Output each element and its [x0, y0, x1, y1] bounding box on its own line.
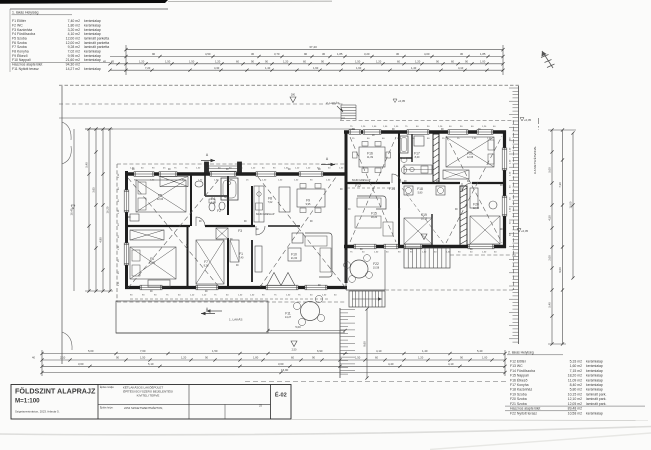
interior wall F1/F10: [251, 240, 253, 282]
svg-text:F11 Nyitott terasz: F11 Nyitott terasz: [12, 67, 39, 71]
svg-text:37,40: 37,40: [309, 45, 317, 49]
round table F22: [344, 255, 373, 283]
svg-text:1,00: 1,00: [482, 356, 488, 360]
terrace dim 5,00: [266, 325, 346, 332]
svg-text:kerámialap: kerámialap: [586, 364, 603, 368]
svg-text:2,50: 2,50: [292, 349, 297, 352]
stairs F22 down: [349, 291, 385, 307]
bed F20: [470, 216, 500, 244]
site dashed line: [59, 103, 345, 105]
svg-text:30: 30: [251, 52, 255, 56]
svg-text:5,80: 5,80: [418, 192, 423, 195]
svg-text:kerámialap: kerámialap: [84, 67, 101, 71]
interior wall F16/bath: [398, 133, 400, 183]
svg-text:F12 Előtér: F12 Előtér: [510, 359, 527, 363]
room label F16: [367, 152, 374, 160]
stair arrow F22: [352, 297, 382, 300]
svg-text:Hasznos alapterület: Hasznos alapterület: [510, 407, 540, 411]
exterior wall unit2 bottom: [344, 245, 506, 248]
bed F5: [136, 180, 186, 212]
svg-text:60x60 GRESLAP: 60x60 GRESLAP: [256, 213, 275, 216]
svg-text:12,00: 12,00: [149, 262, 156, 265]
bathtub F4: [221, 178, 238, 200]
svg-text:16,00: 16,00: [569, 201, 573, 208]
svg-text:30: 30: [396, 52, 400, 56]
svg-text:FÖLDSZINT ALAPRAJZ: FÖLDSZINT ALAPRAJZ: [15, 387, 96, 396]
title middle fields: [100, 385, 262, 410]
svg-text:9,00: 9,00: [558, 267, 562, 273]
bed F7: [196, 240, 224, 284]
chair F20: [489, 201, 497, 209]
svg-text:F15 Nappali: F15 Nappali: [510, 374, 529, 378]
svg-text:90: 90: [205, 356, 208, 360]
window F20 bottom: [468, 244, 494, 249]
bed F21: [446, 137, 494, 167]
svg-text:5,33 m2: 5,33 m2: [570, 359, 583, 363]
svg-text:A-A METSZÉSVONAL: A-A METSZÉSVONAL: [532, 146, 537, 174]
roof overhang dashed unit2: [340, 121, 514, 291]
svg-text:4,10: 4,10: [458, 66, 464, 70]
svg-text:F9 Étkező: F9 Étkező: [12, 53, 28, 58]
svg-text:F16: F16: [367, 152, 373, 156]
svg-text:90: 90: [436, 60, 439, 64]
svg-text:10,58: 10,58: [373, 267, 380, 270]
svg-text:F3: F3: [238, 229, 242, 233]
kitchen counter F17: [404, 165, 432, 174]
svg-text:F1: F1: [239, 252, 243, 256]
room label F18: [417, 187, 423, 195]
svg-text:F16 Étkező: F16 Étkező: [510, 377, 527, 382]
svg-text:F11: F11: [285, 312, 291, 316]
sink F4: [195, 181, 203, 187]
level mark +0,05 right: [520, 118, 532, 123]
window F15 bottom: [354, 244, 376, 249]
svg-text:1,60 m2: 1,60 m2: [570, 364, 583, 368]
bed F6: [130, 247, 176, 279]
dimension chain left: [70, 127, 113, 292]
interior wall kitchen left: [411, 133, 413, 162]
level mark triangle left: [290, 94, 296, 103]
roof diagonal dashes over F5 F6: [128, 178, 220, 288]
title block bottom faint line: [291, 420, 648, 421]
svg-text:laminált park.: laminált park.: [586, 402, 606, 406]
svg-text:M=1:100: M=1:100: [15, 398, 40, 405]
svg-text:F13 WC: F13 WC: [510, 364, 523, 368]
window F20 right: [502, 196, 507, 216]
svg-text:12,10: 12,10: [473, 207, 480, 210]
svg-text:2254 SZIGETSZENTMÁRTON,: 2254 SZIGETSZENTMÁRTON,: [124, 406, 163, 410]
svg-text:60: 60: [291, 356, 294, 360]
desk F6: [148, 280, 170, 287]
roof diagonal dash over F19: [402, 188, 444, 244]
dashed line below unit1: [130, 298, 330, 300]
svg-text:Építés módja:: Építés módja:: [100, 386, 114, 389]
level mark right2: [517, 229, 529, 234]
svg-text:1,20: 1,20: [418, 356, 424, 360]
room label F2: [217, 209, 221, 213]
property boundary dash line top: [59, 84, 520, 86]
room label F22: [373, 262, 380, 270]
window F7 bottom: [196, 285, 218, 290]
svg-text:1,20: 1,20: [415, 60, 421, 64]
svg-text:7,20: 7,20: [145, 66, 151, 70]
svg-text:1,85: 1,85: [337, 52, 343, 56]
room label F7: [204, 260, 209, 268]
round table F11: [293, 295, 324, 325]
svg-text:1,40: 1,40: [411, 66, 417, 70]
unit1 label: [206, 309, 242, 321]
svg-text:2. lakás Helyiség: 2. lakás Helyiség: [508, 351, 534, 355]
svg-text:4,90: 4,90: [99, 237, 103, 243]
window F21 top2: [477, 130, 493, 135]
window F5 top 2: [159, 172, 177, 177]
svg-text:60: 60: [303, 60, 306, 64]
armchair F10: [292, 233, 303, 243]
svg-text:9,95: 9,95: [306, 203, 311, 206]
svg-text:1,20: 1,20: [215, 60, 221, 64]
wall dim specks right: [510, 137, 512, 236]
svg-text:4,50: 4,50: [548, 215, 552, 221]
interior wall F5/F4: [190, 175, 192, 226]
svg-text:30: 30: [322, 52, 326, 56]
svg-text:90: 90: [265, 60, 268, 64]
svg-text:3,60: 3,60: [278, 362, 284, 366]
svg-text:kerámialap: kerámialap: [586, 383, 603, 387]
unit2 label: [326, 101, 343, 112]
svg-text:5,00: 5,00: [548, 167, 552, 173]
svg-text:kerámialap: kerámialap: [586, 378, 603, 382]
svg-text:1,80: 1,80: [253, 356, 259, 360]
svg-text:12,00: 12,00: [157, 198, 164, 201]
svg-text:30: 30: [460, 52, 464, 56]
svg-text:1,50: 1,50: [212, 349, 218, 353]
svg-text:5,00: 5,00: [88, 349, 94, 353]
svg-text:45: 45: [111, 60, 114, 64]
svg-text:F12: F12: [355, 184, 361, 188]
section line A-A label: [532, 118, 539, 174]
wc F4: [209, 199, 215, 211]
nightstand F5: [130, 214, 139, 221]
svg-text:F21 Szoba: F21 Szoba: [510, 402, 527, 406]
hatched masonry wall F17/F21: [433, 134, 439, 183]
wc F2: [219, 202, 225, 210]
svg-text:60: 60: [397, 60, 400, 64]
room label F17: [414, 152, 420, 160]
svg-text:F14 Fürdőszoba: F14 Fürdőszoba: [510, 369, 535, 373]
svg-text:5,00: 5,00: [295, 325, 301, 329]
svg-text:+0,05: +0,05: [521, 229, 529, 233]
boiler F18: [404, 186, 413, 195]
svg-text:1,20: 1,20: [376, 60, 382, 64]
interior wall F2 WC: [205, 175, 228, 196]
svg-text:F6: F6: [150, 257, 154, 261]
svg-text:7,40: 7,40: [239, 257, 244, 260]
svg-text:1,40: 1,40: [422, 349, 428, 353]
svg-text:8,40: 8,40: [415, 156, 420, 159]
svg-text:5,80 m2: 5,80 m2: [570, 388, 583, 392]
svg-text:3,70: 3,70: [274, 52, 280, 56]
wardrobe F5: [160, 177, 188, 187]
roof diagonal dashes over F15 F16: [350, 137, 396, 242]
fridge F17: [414, 136, 424, 146]
svg-text:F9: F9: [306, 199, 310, 203]
bath fixtures unit2: [400, 136, 408, 173]
svg-text:60: 60: [451, 60, 454, 64]
svg-text:Építés helye:: Építés helye:: [100, 406, 114, 409]
window F10 bottom: [305, 285, 327, 290]
north arrow: [541, 51, 555, 68]
svg-text:F15: F15: [371, 212, 377, 216]
svg-text:2,00: 2,00: [548, 255, 552, 261]
bed F19: [404, 218, 432, 244]
svg-text:É-02: É-02: [275, 391, 287, 399]
svg-text:90: 90: [304, 52, 308, 56]
section mark A bottom: [201, 307, 215, 315]
room label F14: [389, 187, 395, 191]
svg-text:kerámialap: kerámialap: [586, 388, 603, 392]
svg-text:F22: F22: [373, 262, 379, 266]
svg-text:90: 90: [321, 60, 324, 64]
svg-text:18,20: 18,20: [371, 216, 378, 219]
room label F19: [421, 213, 428, 221]
svg-text:10,58 m2: 10,58 m2: [568, 411, 582, 415]
exterior wall unit2 right: [503, 131, 506, 249]
svg-text:16,20: 16,20: [106, 206, 110, 213]
svg-text:1,50: 1,50: [189, 60, 195, 64]
sofa F15: [355, 196, 393, 236]
french door swings: [267, 273, 295, 286]
svg-text:laminált park.: laminált park.: [586, 397, 606, 401]
svg-text:3,20: 3,20: [364, 52, 370, 56]
svg-text:1,50: 1,50: [165, 60, 171, 64]
svg-text:+0,05: +0,05: [524, 118, 532, 122]
roof overhang dashed unit1: [117, 164, 346, 302]
window F6 left: [124, 243, 129, 265]
svg-text:21,60: 21,60: [291, 257, 298, 260]
door swing F5: [196, 217, 205, 226]
room label F10: [291, 253, 298, 261]
svg-text:laminált park.: laminált park.: [586, 392, 606, 396]
wall dim specks left: [118, 173, 120, 286]
sofa F10: [305, 233, 332, 277]
svg-text:12,05 m2: 12,05 m2: [568, 402, 582, 406]
svg-text:5,40: 5,40: [477, 349, 483, 353]
svg-text:kerámialap: kerámialap: [586, 411, 603, 415]
svg-text:280: 280: [291, 94, 296, 97]
entrance door unit1: [210, 172, 236, 177]
interior wall hall/kitchen: [251, 186, 253, 226]
scan artifact: faint gray line across lower page: [0, 427, 651, 435]
dashed level line below stairs: [450, 254, 517, 256]
svg-text:F20 Szoba: F20 Szoba: [510, 397, 527, 401]
svg-text:1. lakás Helyiség: 1. lakás Helyiség: [12, 11, 39, 15]
interior wall unit2 middle horizontal: [346, 182, 505, 184]
svg-text:45: 45: [103, 60, 106, 64]
wall dim specks bottom unit1: [130, 295, 337, 297]
svg-text:+0,05: +0,05: [398, 99, 406, 103]
svg-text:kerámialap: kerámialap: [586, 369, 603, 373]
stairs unit2 south: [404, 248, 450, 268]
room label F21: [467, 152, 474, 160]
svg-text:3,60: 3,60: [78, 362, 84, 366]
door unit2 top: [349, 130, 361, 135]
svg-text:KIVITELI TERVE: KIVITELI TERVE: [137, 394, 160, 398]
dim line right of terrace ladder: [363, 307, 369, 379]
wardrobe F6: [130, 230, 164, 240]
svg-text:kerámialap: kerámialap: [84, 58, 101, 62]
svg-text:1,60: 1,60: [356, 66, 362, 70]
svg-text:F8: F8: [268, 197, 272, 201]
retaining wall hatch left of terrace: [340, 308, 355, 378]
svg-text:F17 Konyha: F17 Konyha: [510, 383, 529, 387]
section mark A mid: [321, 157, 335, 166]
interior wall F4/hall: [227, 175, 229, 215]
svg-text:F20: F20: [473, 203, 479, 207]
door swing F6: [256, 226, 265, 235]
room label F15: [371, 212, 378, 220]
level mark terrace triangle: [291, 341, 297, 352]
svg-text:60: 60: [236, 60, 239, 64]
svg-text:1,40: 1,40: [265, 66, 271, 70]
legend table unit 2: [505, 351, 645, 416]
svg-text:90: 90: [312, 356, 315, 360]
svg-text:5,40: 5,40: [548, 302, 552, 308]
desk F20: [470, 188, 478, 208]
french door F10 bottom: [266, 285, 298, 290]
svg-text:4,30: 4,30: [214, 66, 220, 70]
svg-text:4,00: 4,00: [424, 52, 430, 56]
wall dim specks top unit2: [350, 126, 496, 140]
room label F12: [355, 184, 361, 188]
interior wall F6/F7: [187, 226, 189, 288]
svg-text:1,85: 1,85: [480, 52, 486, 56]
title text: [15, 387, 96, 414]
svg-text:F18: F18: [417, 187, 423, 191]
entrance steps unit2: [341, 105, 356, 120]
window F17 top: [407, 130, 429, 135]
interior wall unit1 middle horizontal: [126, 225, 300, 227]
room label F8: [268, 197, 273, 205]
roof diagonal dashes over F21 F20: [446, 136, 502, 243]
svg-text:1,20: 1,20: [181, 356, 187, 360]
legend table unit 1: [10, 9, 168, 72]
scan artifact: top black bar: [0, 0, 168, 4]
svg-text:4,10: 4,10: [211, 202, 216, 205]
interior wall bath partition: [399, 157, 412, 159]
room label F1: [239, 252, 244, 260]
window F21 right: [502, 148, 507, 170]
wardrobe F21: [443, 170, 469, 179]
terrace F22 boundary: [346, 250, 385, 290]
svg-text:3,65: 3,65: [92, 187, 96, 193]
window kitchen top: [256, 172, 276, 177]
exterior wall unit1 top: [125, 172, 347, 175]
svg-text:1,60: 1,60: [313, 66, 319, 70]
exterior wall unit1 bottom: [125, 286, 347, 289]
window F16 top: [363, 130, 381, 135]
svg-text:89,48 m2: 89,48 m2: [568, 407, 582, 411]
room label F20: [473, 203, 480, 211]
window F21 top: [448, 130, 468, 135]
property boundary left vertical: [62, 86, 72, 364]
room label F11: [285, 312, 292, 320]
svg-text:10,15 m2: 10,15 m2: [568, 392, 582, 396]
svg-text:12,05: 12,05: [467, 156, 474, 159]
svg-text:11,09: 11,09: [367, 156, 374, 159]
svg-text:F18 Kazánház: F18 Kazánház: [510, 388, 532, 392]
interior wall F19 closet: [431, 214, 433, 246]
svg-text:8,40 m2: 8,40 m2: [570, 383, 583, 387]
svg-text:4,10: 4,10: [448, 362, 454, 366]
svg-text:2,10: 2,10: [60, 356, 66, 360]
interior wall F15/F19: [398, 183, 400, 246]
svg-text:5,10: 5,10: [148, 362, 154, 366]
hall closet F1: [230, 240, 239, 262]
scan artifact: faint diagonal bottom-right: [430, 433, 651, 450]
svg-text:1,50: 1,50: [355, 356, 361, 360]
title block frame: [11, 385, 291, 420]
svg-text:16,90: 16,90: [281, 368, 289, 372]
svg-text:F7: F7: [204, 260, 208, 264]
svg-text:F2: F2: [217, 209, 221, 213]
terrace F11 edge: [116, 332, 345, 334]
title block top dashed line: [245, 381, 506, 383]
roof diagonal dashes over F8 F9 F10: [258, 177, 345, 287]
door swing F16: [392, 174, 401, 183]
svg-text:F19: F19: [421, 213, 427, 217]
tv cabinet F10: [255, 246, 262, 272]
level mark stairs triangle: [421, 234, 427, 240]
svg-text:F21: F21: [467, 152, 473, 156]
svg-text:F5: F5: [158, 194, 162, 198]
dining table F9: [297, 184, 325, 213]
window F9 top: [299, 172, 323, 177]
washer F18: [436, 186, 445, 195]
svg-text:90: 90: [152, 52, 156, 56]
dashed line across F16 F15: [347, 187, 396, 189]
dimension chain top: [103, 45, 505, 75]
svg-text:F4: F4: [211, 197, 215, 201]
svg-text:Szigetszentmárton, 2023. febru: Szigetszentmárton, 2023. február 5.: [15, 410, 60, 414]
svg-text:F17: F17: [414, 152, 420, 156]
terrace F11 slab: [116, 301, 268, 333]
svg-text:2, LAKÁS: 2, LAKÁS: [326, 101, 339, 105]
svg-text:4,50: 4,50: [205, 52, 211, 56]
entrance steps unit1: [205, 162, 242, 173]
svg-text:5,40: 5,40: [85, 162, 89, 168]
svg-text:40: 40: [32, 356, 35, 360]
party wall between units: [345, 133, 348, 283]
svg-text:7,60: 7,60: [140, 349, 146, 353]
svg-text:60: 60: [375, 356, 378, 360]
door F22 bottom: [384, 244, 398, 249]
room label F9: [306, 199, 311, 207]
svg-text:6,90: 6,90: [317, 349, 323, 353]
svg-text:18,20 m2: 18,20 m2: [568, 374, 582, 378]
wardrobe F7: [216, 228, 228, 239]
kitchen island F8: [279, 187, 290, 212]
door swing F19: [462, 183, 472, 192]
svg-text:90: 90: [116, 356, 119, 360]
svg-text:F14: F14: [389, 187, 395, 191]
svg-text:1, LAKÁS: 1, LAKÁS: [229, 318, 242, 322]
svg-text:90: 90: [251, 60, 254, 64]
svg-text:90: 90: [465, 60, 468, 64]
dimension chain right: [548, 128, 576, 345]
svg-text:4,10: 4,10: [376, 349, 382, 353]
svg-text:9,60: 9,60: [363, 341, 367, 347]
wall dim specks bottom unit2: [350, 252, 497, 254]
